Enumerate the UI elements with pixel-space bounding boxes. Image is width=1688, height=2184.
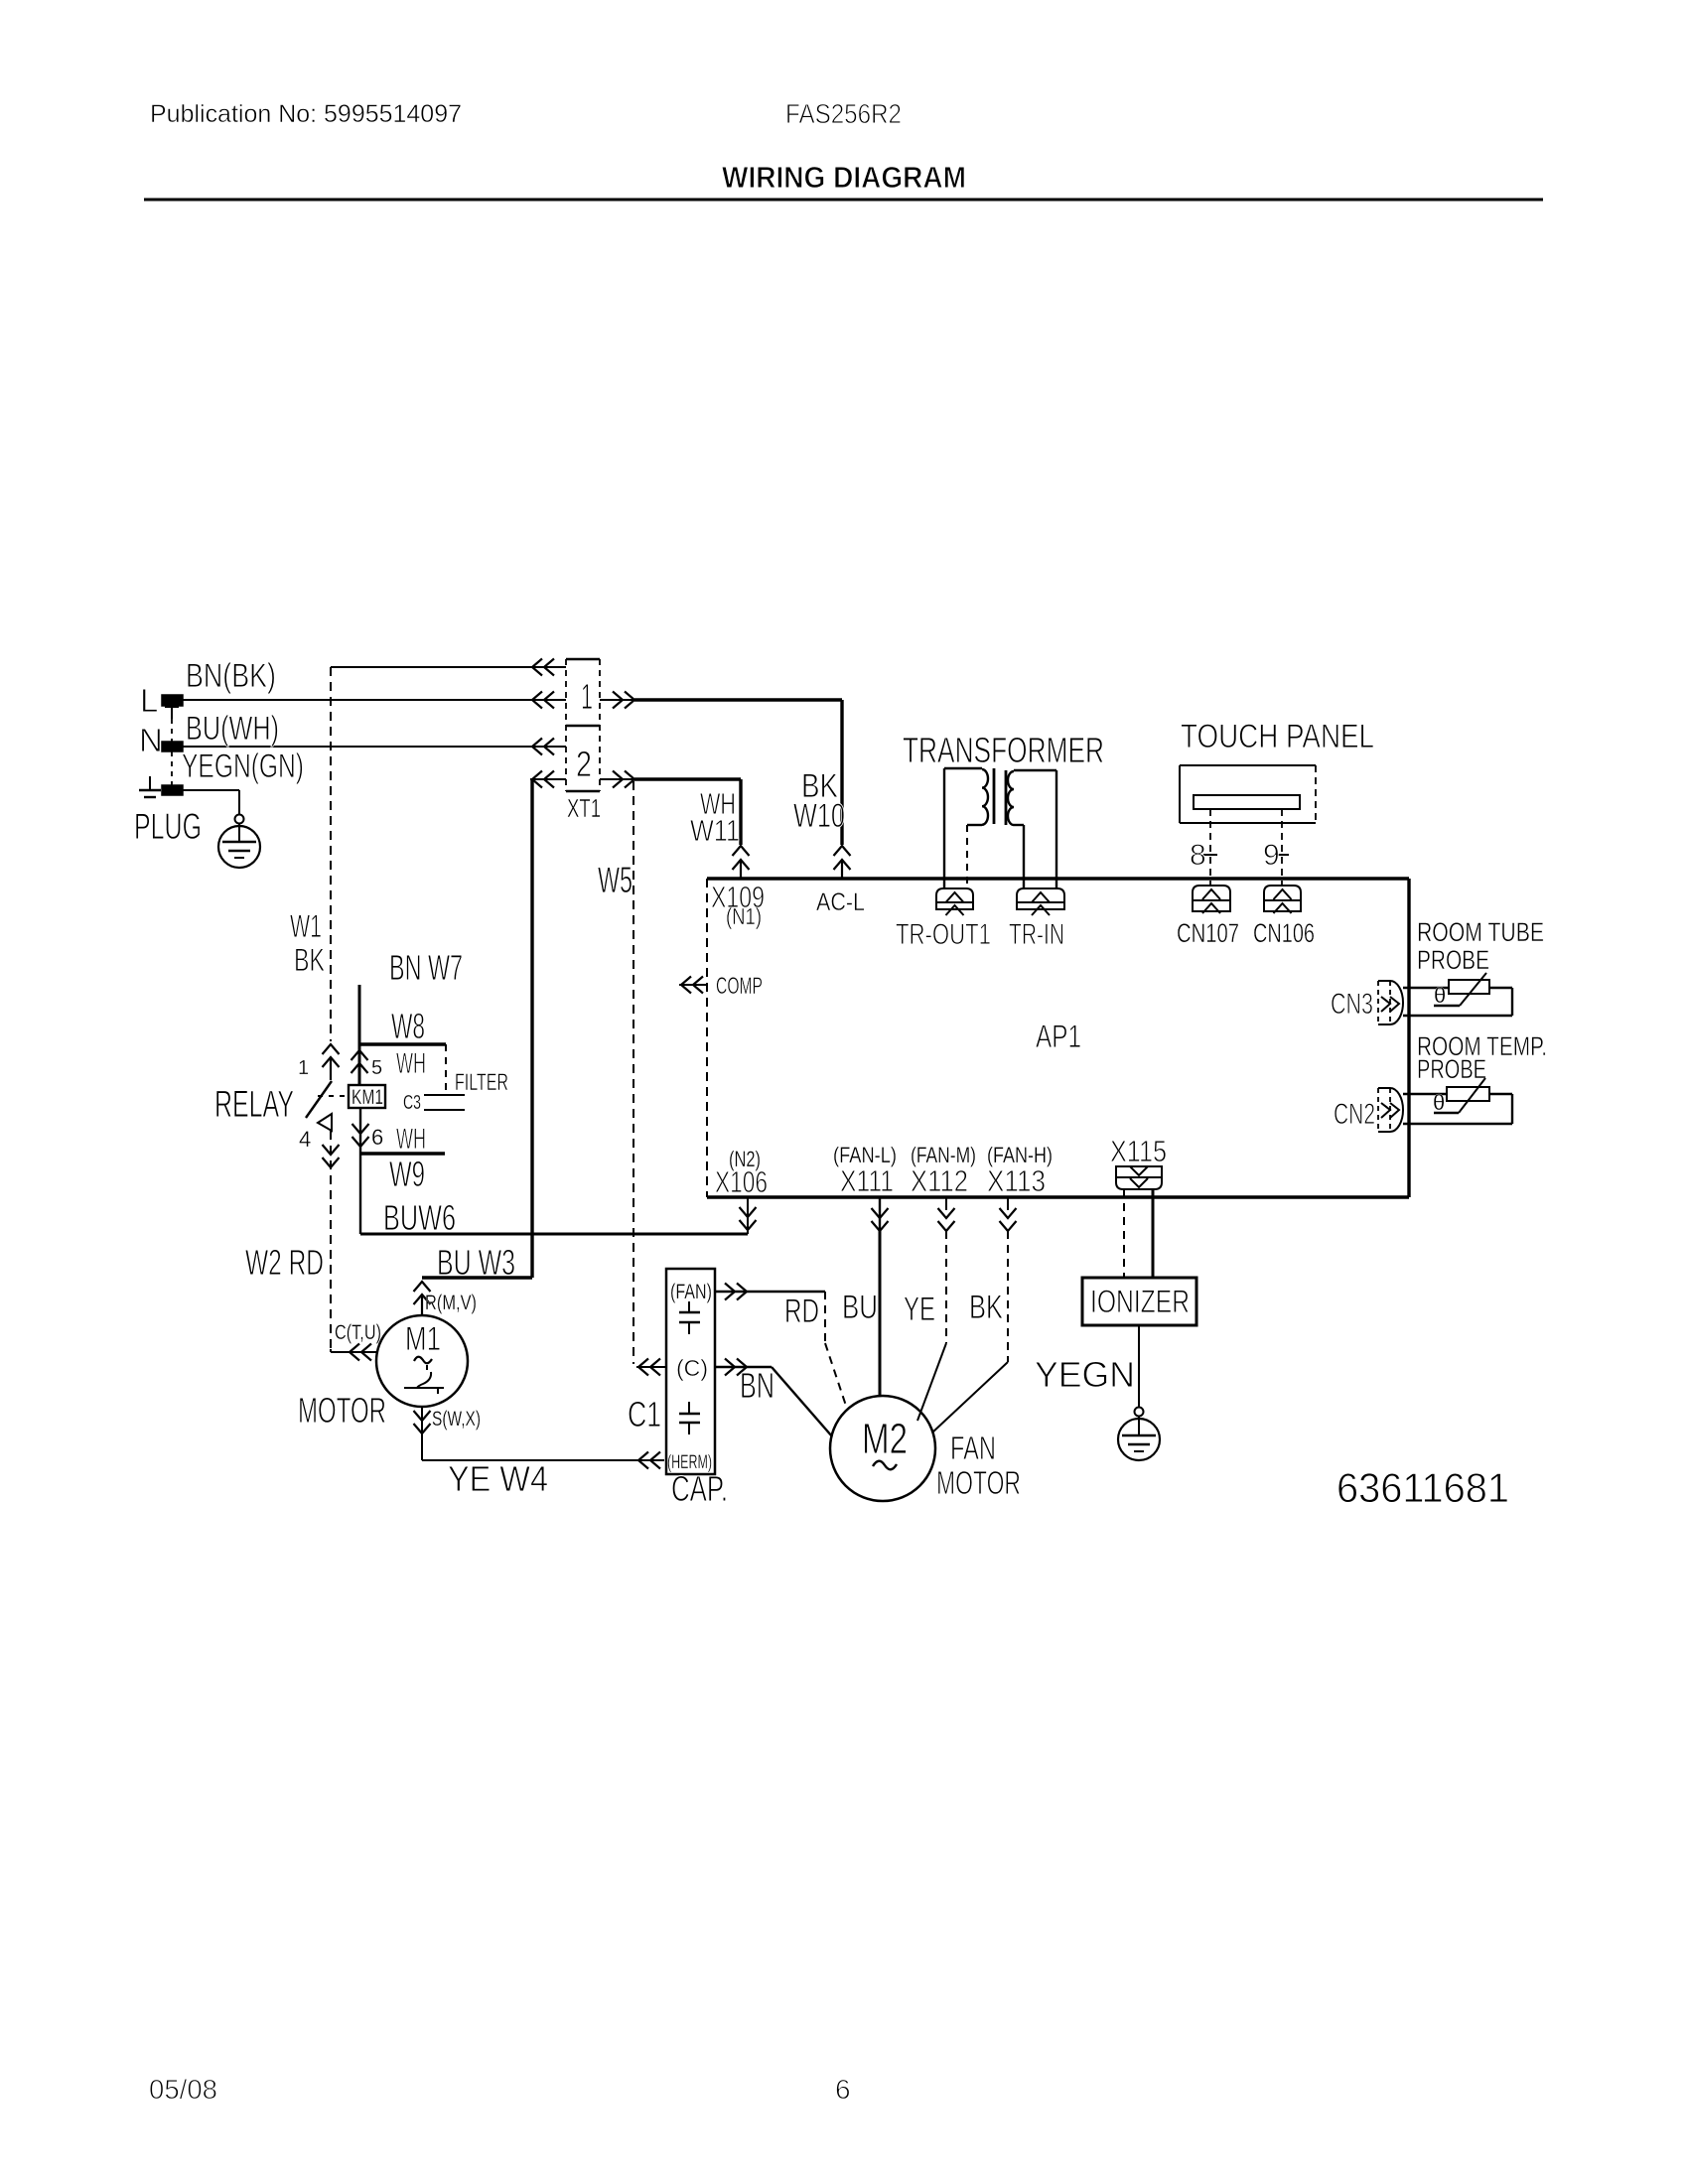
header publication number	[150, 100, 462, 128]
wire WH W11 horizontal segment	[634, 777, 741, 780]
svg-text:C3: C3	[403, 1092, 421, 1114]
XT1 left connector arrow (wire W1)	[530, 659, 566, 676]
wire BK X113 diagonal to M2	[932, 1362, 1008, 1433]
room temp thermistor arrow	[1434, 1078, 1485, 1113]
label W5	[598, 860, 633, 900]
connector CN107	[1193, 886, 1230, 913]
svg-text:9: 9	[1263, 839, 1280, 872]
svg-text:CN106: CN106	[1253, 918, 1315, 948]
label BU W3	[437, 1242, 515, 1283]
label YE W4	[448, 1458, 548, 1499]
label X111	[840, 1163, 894, 1198]
label WH (wire W11)	[700, 786, 736, 821]
svg-text:WH: WH	[396, 1047, 426, 1080]
label BK (wire W1)	[294, 942, 325, 978]
svg-text:FILTER: FILTER	[455, 1069, 508, 1096]
svg-text:63611681: 63611681	[1336, 1464, 1509, 1511]
plug body dashed link	[171, 719, 173, 785]
connector arrow wire W11 into X109	[733, 846, 750, 879]
protective earth ground circle	[218, 826, 260, 868]
label W8	[391, 1006, 425, 1046]
connector arrow C1 FAN pin and wire RD horizontal	[715, 1284, 825, 1300]
svg-text:CAP.: CAP.	[671, 1468, 728, 1509]
XT1 left connector arrow (wire BN from L)	[530, 692, 566, 709]
svg-text:05/08: 05/08	[149, 2074, 217, 2105]
svg-text:R(M,V): R(M,V)	[425, 1292, 477, 1314]
label MOTOR (M1)	[298, 1390, 386, 1431]
svg-text:W11: W11	[690, 813, 740, 848]
label MOTOR (M2)	[936, 1464, 1021, 1501]
label W2 RD	[245, 1242, 324, 1283]
label ROOM TUBE	[1417, 917, 1544, 947]
svg-text:COMP: COMP	[716, 973, 763, 1000]
label BN W7	[389, 947, 463, 988]
header model number FAS256R2	[785, 98, 902, 129]
wire YEGN(GN) from PE terminal to ground electrode	[183, 790, 239, 814]
relay pin number 6	[371, 1125, 383, 1150]
label CAP.	[671, 1468, 728, 1509]
svg-text:FAS256R2: FAS256R2	[785, 98, 902, 129]
svg-text:S(W,X): S(W,X)	[432, 1408, 481, 1431]
label IONIZER	[1090, 1284, 1190, 1319]
wire RD dashed segments to M2	[825, 1292, 847, 1409]
wire BUW6 horizontal to X106	[360, 1233, 748, 1236]
label FAN (M2)	[950, 1430, 996, 1466]
svg-text:CN3: CN3	[1331, 988, 1373, 1021]
svg-text:YE W4: YE W4	[448, 1458, 548, 1499]
pin tick 9	[1275, 854, 1289, 856]
wire W9/W6 vertical from relay pin 6	[359, 1123, 361, 1234]
svg-text:BN W7: BN W7	[389, 947, 463, 988]
label CN107	[1177, 918, 1239, 948]
svg-text:N: N	[139, 722, 163, 758]
wire YE X112 diagonal to M2	[917, 1343, 946, 1421]
svg-text:WH: WH	[396, 1123, 426, 1156]
touch panel wire 8 dashed	[1209, 809, 1211, 886]
drawing number 63611681	[1336, 1464, 1509, 1511]
filter capacitor C3 plates	[424, 1095, 465, 1110]
svg-text:TR-OUT1: TR-OUT1	[896, 918, 991, 951]
label X109	[711, 880, 765, 914]
label BK (fan)	[969, 1289, 1003, 1326]
transformer secondary winding	[1008, 770, 1056, 888]
room temp thermistor theta symbol	[1433, 1090, 1445, 1115]
label X113	[987, 1163, 1046, 1198]
wire W9 WH stub	[360, 1152, 445, 1155]
svg-text:M2: M2	[862, 1415, 908, 1463]
label WH (wire W9)	[396, 1123, 426, 1156]
label PROBE (room temp)	[1417, 1054, 1486, 1084]
svg-text:CN2: CN2	[1334, 1098, 1375, 1131]
svg-text:IONIZER: IONIZER	[1090, 1284, 1190, 1319]
transformer primary dashed lead	[966, 825, 968, 888]
touch panel outline	[1180, 765, 1316, 823]
wire W5 dashed vertical	[633, 781, 634, 1364]
touch panel wire 9 dashed	[1281, 809, 1283, 886]
transformer primary winding	[944, 768, 988, 888]
svg-text:C1: C1	[628, 1394, 661, 1434]
svg-text:ROOM TUBE: ROOM TUBE	[1417, 917, 1544, 947]
relay pin number 4	[299, 1127, 311, 1152]
label ROOM TEMP.	[1417, 1031, 1547, 1061]
connector CN106	[1264, 886, 1301, 913]
svg-text:YE: YE	[904, 1291, 935, 1328]
svg-text:XT1: XT1	[567, 793, 601, 823]
label TR-IN	[1009, 918, 1064, 951]
label COMP	[716, 973, 763, 1000]
ionizer ground stem	[1138, 1417, 1140, 1435]
plug terminal PE	[162, 785, 183, 795]
ground electrode stem	[238, 824, 240, 842]
connector arrow wire W10 into AC-L	[834, 846, 851, 879]
wire BU(WH) from N to XT1 pin 2	[183, 746, 530, 748]
capacitor C1 lower section symbol	[679, 1402, 700, 1434]
svg-text:BU(WH): BU(WH)	[186, 710, 279, 748]
svg-text:TOUCH PANEL: TOUCH PANEL	[1181, 718, 1374, 755]
svg-text:RD: RD	[784, 1293, 819, 1330]
relay pin 6 stem	[359, 1108, 361, 1123]
connector arrow X112	[938, 1197, 955, 1231]
svg-text:FAN: FAN	[950, 1430, 996, 1466]
label TOUCH PANEL	[1181, 718, 1374, 755]
wire W3 BU vertical segment	[530, 779, 533, 1278]
connector X115	[1116, 1166, 1162, 1189]
wire X115 to ionizer dashed	[1123, 1189, 1125, 1278]
wire BN diagonal to M2	[772, 1367, 832, 1436]
wire BK W10 horizontal segment	[634, 698, 842, 701]
svg-text:W1: W1	[290, 908, 322, 944]
label YEGN(GN)	[182, 748, 304, 785]
label BU(WH)	[186, 710, 279, 748]
label (FAN-M)	[911, 1143, 976, 1167]
connector arrow wire W4 into C1 HERM	[638, 1452, 660, 1469]
label XT1	[567, 793, 601, 823]
room tube probe thermistor loop	[1403, 988, 1512, 1016]
svg-text:Publication No: 5995514097: Publication No: 5995514097	[150, 100, 462, 128]
svg-text:θ: θ	[1434, 983, 1446, 1008]
relay mechanical link to coil	[318, 1095, 349, 1097]
svg-text:WIRING DIAGRAM: WIRING DIAGRAM	[722, 160, 966, 195]
label C1	[628, 1394, 661, 1434]
wire W1 BK top segment	[331, 666, 532, 668]
svg-text:θ: θ	[1433, 1090, 1445, 1115]
label (FAN)	[670, 1281, 712, 1303]
svg-text:BN: BN	[740, 1365, 774, 1406]
control board AP1 bottom edge	[707, 1195, 1409, 1198]
fan motor M2 circle	[830, 1396, 935, 1501]
svg-text:TR-IN: TR-IN	[1009, 918, 1064, 951]
svg-text:X106: X106	[715, 1164, 768, 1199]
connector TR-IN	[1017, 888, 1064, 915]
label X112	[911, 1163, 968, 1198]
header title WIRING DIAGRAM	[722, 160, 966, 195]
wire W7 BN vertical	[358, 985, 361, 1085]
wire W2 RD arrow into M1 C terminal	[331, 1344, 376, 1361]
XT1 right connector arrow pin 2	[600, 771, 635, 788]
svg-text:C(T,U): C(T,U)	[335, 1321, 381, 1344]
XT1 pin 2 number	[576, 744, 592, 784]
XT1 left connector arrow (wire W3)	[530, 771, 566, 788]
control board AP1 right edge	[1407, 879, 1410, 1197]
wire W8 WH horizontal	[359, 1042, 446, 1045]
connector arrow X113	[1000, 1197, 1017, 1231]
connector arrow relay pin 6	[352, 1124, 369, 1147]
label (FAN-H)	[987, 1143, 1053, 1167]
svg-text:YEGN(GN): YEGN(GN)	[182, 748, 304, 785]
svg-text:M1: M1	[405, 1320, 441, 1358]
svg-text:KM1: KM1	[352, 1086, 383, 1109]
label PROBE (room tube)	[1417, 945, 1489, 975]
label X106	[715, 1164, 768, 1199]
room tube thermistor theta symbol	[1434, 983, 1446, 1008]
capacitor C1 box	[666, 1269, 715, 1474]
capacitor C1 upper section symbol	[679, 1301, 700, 1334]
connector arrow wire W7 into relay pin 5	[352, 1050, 368, 1073]
XT1 pin 1 number	[581, 676, 593, 717]
label S(W,X)	[432, 1408, 481, 1431]
room tube thermistor arrow	[1434, 973, 1486, 1006]
compressor motor M1 circle	[376, 1315, 468, 1407]
connector arrow relay pin 4	[323, 1145, 340, 1167]
transformer core	[994, 768, 1006, 825]
plug earth symbol	[139, 776, 161, 797]
header rule line	[144, 199, 1543, 202]
label W10	[793, 797, 845, 835]
ionizer ground small circle	[1135, 1408, 1144, 1417]
svg-text:(N1): (N1)	[726, 903, 762, 929]
label (HERM)	[667, 1452, 712, 1473]
svg-text:L: L	[140, 682, 158, 719]
XT1 left connector arrow (wire BU from N)	[530, 739, 566, 755]
svg-text:BU W3: BU W3	[437, 1242, 515, 1283]
label AC-L	[816, 888, 865, 916]
wire WH W11 vertical segment	[739, 779, 742, 845]
svg-text:W2 RD: W2 RD	[245, 1242, 324, 1283]
label TR-OUT1	[896, 918, 991, 951]
relay fixed contact triangle	[318, 1114, 332, 1131]
label TRANSFORMER	[903, 730, 1104, 770]
svg-text:AC-L: AC-L	[816, 888, 865, 916]
label W9	[389, 1154, 425, 1194]
svg-text:AP1: AP1	[1036, 1019, 1081, 1054]
svg-text:BK: BK	[969, 1289, 1003, 1326]
svg-text:W9: W9	[389, 1154, 425, 1194]
relay pin number 5	[371, 1057, 382, 1079]
svg-text:8: 8	[1190, 839, 1206, 872]
pin tick 8	[1203, 854, 1217, 856]
label L	[140, 682, 158, 719]
connector arrow wire W1 to relay pin 1	[323, 1044, 340, 1080]
M2 AC tilde symbol	[873, 1461, 897, 1470]
wire BU X111 to M2	[879, 1231, 882, 1396]
label W1	[290, 908, 322, 944]
wire X115 to ionizer solid	[1152, 1189, 1155, 1278]
terminal block XT1 body	[566, 659, 600, 791]
label KM1	[352, 1086, 383, 1109]
plug terminal N	[162, 742, 183, 751]
label FILTER	[455, 1069, 508, 1096]
wire BK W10 vertical segment	[840, 700, 843, 845]
svg-text:X111: X111	[840, 1163, 894, 1198]
connector arrow X106	[740, 1197, 757, 1234]
svg-text:BU: BU	[842, 1289, 878, 1326]
ground electrode small circle	[235, 815, 244, 824]
footer page number 6	[835, 2074, 851, 2105]
label M1	[405, 1320, 441, 1358]
relay coil KM1 box	[349, 1085, 385, 1108]
control board AP1 top edge	[707, 877, 1409, 880]
M1 internal overload protector	[404, 1365, 444, 1394]
svg-text:(FAN): (FAN)	[670, 1281, 712, 1303]
label (FAN-L)	[833, 1143, 897, 1167]
svg-text:BUW6: BUW6	[383, 1197, 456, 1238]
svg-text:X112: X112	[911, 1163, 968, 1198]
label M2	[862, 1415, 908, 1463]
connector arrow C1 C pin left (wire W5)	[636, 1359, 666, 1376]
connector CN3	[1378, 981, 1403, 1024]
label CN106	[1253, 918, 1315, 948]
label R(M,V)	[425, 1292, 477, 1314]
wire YE X112 dashed	[945, 1231, 947, 1343]
label W11	[690, 813, 740, 848]
filter dashed lead	[445, 1044, 447, 1095]
svg-text:2: 2	[576, 744, 592, 784]
plug terminal L	[162, 695, 183, 719]
svg-text:RELAY: RELAY	[214, 1084, 294, 1126]
label CN3	[1331, 988, 1373, 1021]
label BK (wire W10)	[801, 767, 838, 805]
wire YEGN ionizer to ground	[1138, 1325, 1140, 1407]
svg-text:W5: W5	[598, 860, 633, 900]
touch panel display bar	[1194, 795, 1300, 809]
svg-text:PROBE: PROBE	[1417, 1054, 1486, 1084]
svg-text:YEGN: YEGN	[1035, 1354, 1135, 1395]
wire YE W4 from M1 S terminal	[414, 1407, 665, 1460]
connector CN2	[1378, 1088, 1403, 1132]
connector arrow wire W3 into M1 R terminal	[414, 1282, 431, 1315]
label (N1)	[726, 903, 762, 929]
label AP1	[1036, 1019, 1081, 1054]
svg-text:MOTOR: MOTOR	[936, 1464, 1021, 1501]
svg-text:1: 1	[298, 1057, 309, 1079]
svg-text:MOTOR: MOTOR	[298, 1390, 386, 1431]
wire BK X113 dashed	[1007, 1231, 1009, 1362]
label PLUG	[134, 806, 202, 847]
label BUW6	[383, 1197, 456, 1238]
label BN	[740, 1365, 774, 1406]
room temp thermistor body	[1447, 1087, 1489, 1101]
svg-text:BN(BK): BN(BK)	[186, 657, 276, 695]
label C(T,U)	[335, 1321, 381, 1344]
wire BN(BK) from L to XT1 pin 1	[183, 699, 530, 701]
label CN2	[1334, 1098, 1375, 1131]
svg-text:4: 4	[299, 1127, 311, 1152]
label BN(BK)	[186, 657, 276, 695]
svg-text:TRANSFORMER: TRANSFORMER	[903, 730, 1104, 770]
svg-text:X115: X115	[1110, 1134, 1167, 1168]
room temp probe thermistor loop	[1403, 1094, 1512, 1124]
svg-text:BK: BK	[294, 942, 325, 978]
label RELAY	[214, 1084, 294, 1126]
ionizer box	[1082, 1278, 1196, 1325]
svg-text:5: 5	[371, 1057, 382, 1079]
room tube thermistor body	[1449, 980, 1489, 994]
label (C)	[676, 1355, 708, 1381]
svg-text:W8: W8	[391, 1006, 425, 1046]
svg-text:W10: W10	[793, 797, 845, 835]
control board AP1 left edge dashed	[706, 879, 708, 1197]
pin number 8	[1190, 839, 1206, 872]
M1 AC tilde symbol	[414, 1357, 432, 1364]
svg-text:(C): (C)	[676, 1355, 708, 1381]
svg-text:PROBE: PROBE	[1417, 945, 1489, 975]
connector arrow X111	[872, 1197, 889, 1231]
label YE (fan)	[904, 1291, 935, 1328]
footer date 05/08	[149, 2074, 217, 2105]
svg-text:X113: X113	[987, 1163, 1046, 1198]
label N	[139, 722, 163, 758]
svg-text:CN107: CN107	[1177, 918, 1239, 948]
label RD	[784, 1293, 819, 1330]
label X115	[1110, 1134, 1167, 1168]
XT1 right connector arrow pin 1	[600, 692, 635, 709]
svg-text:1: 1	[581, 676, 593, 717]
connector arrow COMP	[679, 977, 707, 994]
connector arrow C1 C pin right and wire BN stub	[715, 1359, 772, 1376]
label (N2)	[729, 1147, 761, 1171]
wire W1 BK dashed vertical segment	[330, 667, 332, 1041]
ionizer protective earth circle	[1118, 1419, 1160, 1460]
svg-text:PLUG: PLUG	[134, 806, 202, 847]
connector TR-OUT1	[936, 888, 973, 915]
label BU (fan)	[842, 1289, 878, 1326]
label WH (wire W8)	[396, 1047, 426, 1080]
svg-text:6: 6	[371, 1125, 383, 1150]
wire W2 RD dashed vertical	[330, 1131, 332, 1349]
label C3	[403, 1092, 421, 1114]
pin number 9	[1263, 839, 1280, 872]
wire W3 BU horizontal segment	[422, 1276, 532, 1279]
svg-text:6: 6	[835, 2074, 851, 2105]
label YEGN	[1035, 1354, 1135, 1395]
relay contact blade	[306, 1081, 332, 1118]
relay pin number 1	[298, 1057, 309, 1079]
